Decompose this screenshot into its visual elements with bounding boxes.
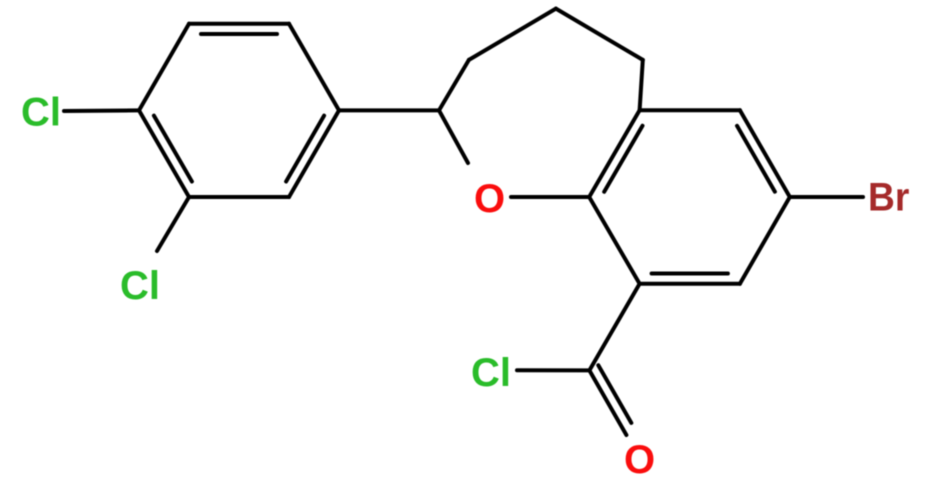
double bond inner line C3'-C4' (154, 116, 192, 182)
bond C3-C4 (right ring top edge) (640, 108, 740, 112)
svg-text:Cl: Cl (120, 264, 160, 308)
bond C4'-Cl (to chlorine Cl1) (64, 108, 139, 113)
double bond inner line C6-C1 (652, 272, 728, 276)
bond C*-Cl (acyl chloride) (517, 368, 589, 372)
bond C4'-C5' (left ring NW edge) (139, 24, 189, 111)
bond bridge b3 (556, 9, 643, 60)
bond C6'-C1' (left ring NE edge) (289, 24, 339, 111)
bond C6-C1 (right ring bottom edge) (640, 282, 740, 286)
double bond inner line C2-C3 (604, 126, 642, 192)
bond C5-Br (to bromine) (790, 195, 863, 199)
bond C1-C2 (right ring SW edge) (589, 197, 639, 284)
svg-text:Br: Br (868, 175, 909, 220)
bond C1-C* (to carbonyl carbon) (589, 284, 639, 371)
bond O-C2 (ether to right ring) (511, 195, 589, 199)
double bond C*=O line 1 (589, 370, 626, 435)
double bond inner line C1'-C2' (286, 116, 324, 182)
svg-text:O: O (474, 177, 505, 221)
bond C2'-C3' (left ring bottom edge) (189, 195, 289, 199)
svg-text:O: O (624, 438, 655, 482)
bond CH2-CH2 (bridge b1) (439, 60, 469, 111)
bond C5-C6 (right ring SE edge) (740, 197, 790, 284)
svg-text:Cl: Cl (21, 91, 61, 135)
bond C5'-C6' (left ring top edge) (189, 22, 289, 26)
bond C3'-C4' (left ring SW edge) (139, 110, 189, 197)
double bond C*=O line 2 (598, 365, 631, 423)
bond bridge b2 (469, 9, 556, 60)
bond CH2-O (to ether oxygen) (439, 110, 468, 163)
bond C3'-Cl (to chlorine Cl2) (157, 197, 189, 251)
bond C4-C5 (right ring NE edge) (740, 110, 790, 197)
double bond inner line C5'-C6' (201, 32, 277, 36)
svg-text:Cl: Cl (471, 351, 511, 395)
bond C2-C3 (right ring NW edge) (589, 110, 639, 197)
bond bridge b4 to ring C3 (640, 60, 643, 110)
bond C1'-C2' (left ring SE edge) (289, 110, 339, 197)
double bond inner line C4-C5 (737, 126, 775, 192)
bond C1'-CH2 (benzylic) (339, 108, 439, 112)
